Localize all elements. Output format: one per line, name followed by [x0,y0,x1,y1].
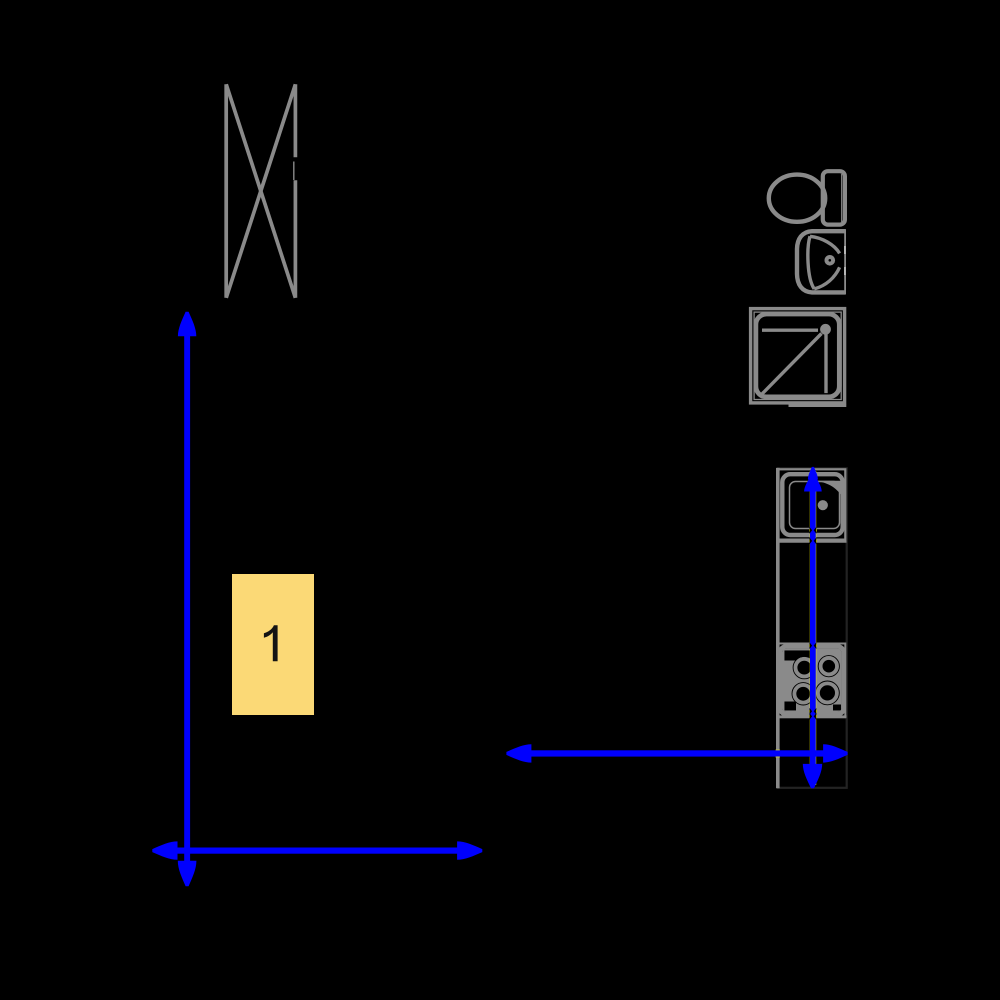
yellow waist mark at y=716.4 [809,715,817,718]
dimension arrow horizontal right head left [506,744,531,762]
shower line vertical [824,334,827,393]
pinch notch at y=530.3 [810,527,813,534]
room label digit 1 (drawn path) [264,625,278,661]
room label rectangle [232,574,314,715]
stove thick rounded border [780,646,843,714]
shower drain dot [820,324,831,335]
stove knob triangle right [831,674,839,684]
stove burner BR [816,681,839,704]
stove interior gray plate [782,649,841,712]
shower rounded square [756,314,839,397]
yellow dimension underlay vertical right [810,471,816,785]
dimension arrow horizontal bottom head right [457,841,482,859]
stove outer thin rect [777,644,845,718]
wash basin bowl crescent left arc [808,236,814,289]
window left jamb [224,84,228,297]
wash basin outer [797,231,846,292]
kitchen counter dark outline [778,468,847,788]
yellow waist mark at y=645.6 [809,644,817,647]
shower line diagonal [762,334,822,395]
kitchen sink corner piece [813,481,841,495]
shower outer square [751,309,845,403]
wash basin right edge dashes [844,246,846,254]
window right jamb upper [294,84,298,157]
yellow waist mark at y=711.3 [809,710,817,713]
dimension arrow vertical right head up small [808,467,818,480]
kitchen divider under sink [777,540,847,542]
yellow waist mark at y=530.3 [809,529,817,532]
yellow tick upper at counter edge [775,750,780,753]
kitchen sink outer thin rect [777,469,845,539]
window right jamb lower [294,180,298,297]
pinch notch at y=716.4 [810,713,813,720]
stove burner TL [793,657,815,679]
kitchen sink thick rounded rect [782,474,842,535]
shower line horizontal [762,329,818,332]
dimension arrow horizontal right shaft [524,750,830,756]
stove knob triangle left [794,677,800,684]
shower inner thin square [754,312,841,399]
stove corner patch BL [784,702,796,712]
pinch notch at y=645.6 [810,642,813,649]
window brace diagonal 2 [226,84,295,297]
wash basin right edge [844,230,846,295]
dimension arrow vertical left head down [178,861,197,887]
dimension arrow vertical right head down [803,764,822,788]
stove corner patch TL [784,650,811,660]
kitchen sink basin rect [790,482,840,529]
kitchen sink drain [818,500,828,510]
wall line below shower [789,404,847,407]
wash basin bowl crescent upper arc [810,236,840,253]
dimension arrow vertical right shaft [810,487,816,767]
wash basin bowl crescent lower arc [814,267,839,289]
yellow waist mark at y=540.9 [809,540,817,543]
yellow tick lower at counter edge [775,754,780,757]
window brace diagonal 1 [226,84,295,297]
wash basin drain [825,255,836,266]
stove burner TR [819,656,840,677]
dimension arrow vertical left shaft [184,330,190,868]
dimension arrow vertical left head up [178,312,196,337]
pinch notch at y=711.3 [810,708,813,715]
pinch notch at y=540.9 [810,538,813,545]
dimension arrow vertical right head up big [804,476,822,492]
stove burner BL [792,683,814,705]
dimension arrow horizontal right head right [823,744,848,762]
dimension arrow horizontal bottom head left [152,841,177,859]
toilet bowl [769,175,825,222]
toilet tank inner line [841,174,843,222]
stove inner thin sharp rect [784,650,842,711]
dimension arrow horizontal bottom shaft [172,848,462,854]
kitchen divider under stove [777,715,847,717]
kitchen counter left edge [776,468,780,788]
stove corner patch BR [833,705,841,712]
window symbol [226,84,295,297]
toilet tank [823,171,845,224]
window sash thin line [293,162,295,181]
